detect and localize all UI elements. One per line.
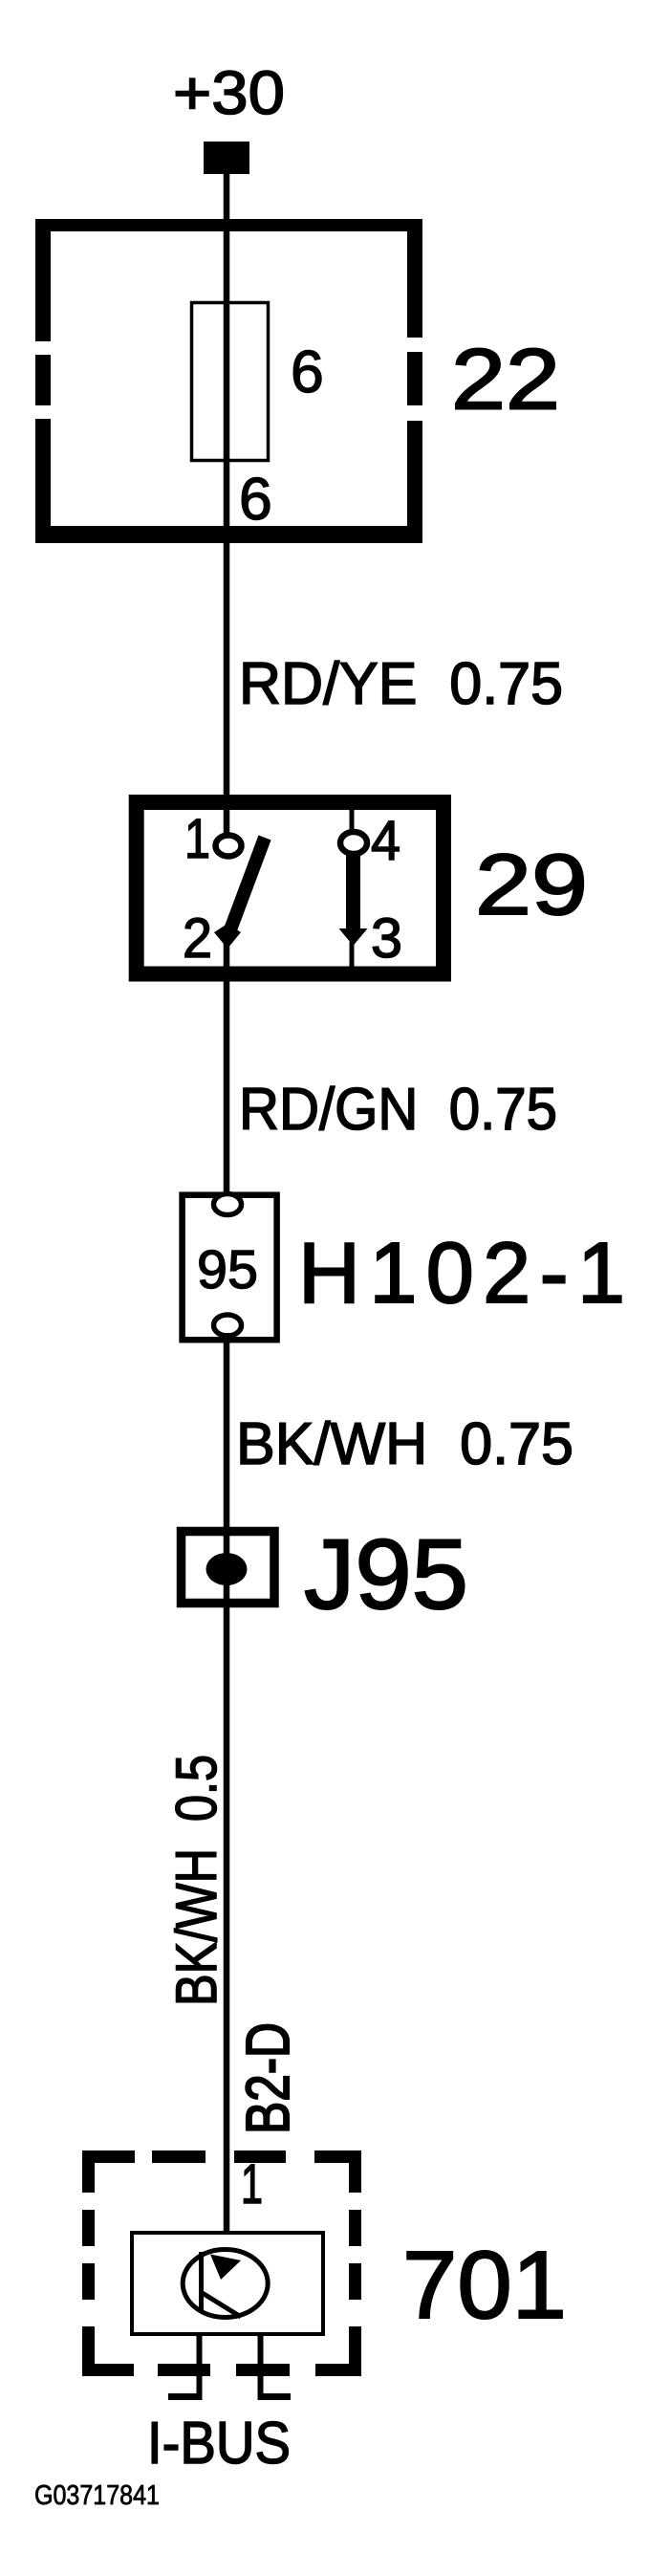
bus transceiver symbol chord line [199, 2252, 204, 2313]
I-BUS stub right end bar [258, 2393, 292, 2400]
svg-text:B2-D: B2-D [233, 2022, 302, 2134]
control unit 701 dashed enclosure bottom edge [82, 2364, 361, 2376]
control unit 701 dashed enclosure left edge [82, 2150, 95, 2375]
I-BUS stub left end bar [168, 2393, 203, 2400]
svg-text:95: 95 [197, 1239, 258, 1300]
pin 1 terminal circle [216, 836, 242, 857]
svg-text:J95: J95 [304, 1519, 468, 1630]
fuse box 22 dashed enclosure left edge [35, 219, 51, 543]
switch 29 enclosure box [137, 802, 443, 974]
svg-text:2: 2 [183, 907, 212, 970]
wire from +30 terminal through fuse box 22 to switch 29 pin 1 [224, 163, 230, 834]
bus transceiver symbol diagonal line [201, 2292, 241, 2317]
svg-text:6: 6 [239, 466, 272, 533]
connector H102-1 body [183, 1195, 277, 1341]
control unit 701 dashed enclosure top edge [82, 2150, 361, 2163]
actuator arrowhead at pin 3 [339, 928, 368, 946]
svg-text:1: 1 [184, 808, 210, 870]
svg-text:22: 22 [451, 333, 560, 428]
wire from switch 29 pin 2 to connector H102-1 [224, 942, 230, 1197]
splice J95 solid dot [206, 1553, 248, 1585]
fuse F6 element rectangle [192, 303, 269, 461]
switch arm from pin 1 to pin 2 [227, 838, 265, 940]
svg-text:+30: +30 [173, 58, 285, 127]
fuse box 22 dashed enclosure bottom edge [35, 526, 422, 543]
control unit 701 connector rectangle [132, 2233, 323, 2334]
splice J95 box [182, 1532, 275, 1604]
pin 4 terminal circle [340, 832, 367, 854]
terminal +30 solid square [204, 142, 249, 174]
svg-text:I-BUS: I-BUS [147, 2411, 291, 2477]
control unit 701 dashed enclosure right edge [349, 2150, 361, 2375]
svg-text:701: 701 [402, 2232, 567, 2339]
wire from connector H102-1 to control unit 701 [224, 1333, 230, 2235]
relay actuator bar from pin 4 to pin 3 [346, 854, 360, 930]
svg-text:6: 6 [291, 338, 324, 405]
switch arm contact diamond at pin 2 [214, 924, 241, 949]
pin 4 stub wire [350, 807, 355, 834]
fuse box 22 dashed enclosure right edge [407, 219, 422, 543]
bus transceiver symbol arrowhead [210, 2255, 241, 2281]
svg-text:RD/GN 0.75: RD/GN 0.75 [239, 1077, 557, 1143]
svg-text:4: 4 [371, 810, 400, 872]
svg-text:BK/WH 0.5: BK/WH 0.5 [164, 1755, 228, 2006]
svg-text:29: 29 [475, 838, 588, 933]
connector H102-1 upper terminal circle [214, 1194, 242, 1215]
svg-text:1: 1 [241, 2153, 263, 2216]
fuse box 22 dashed enclosure top edge [35, 219, 422, 231]
bus transceiver symbol circle [183, 2250, 268, 2318]
I-BUS stub wire right [258, 2334, 264, 2397]
svg-text:BK/WH 0.75: BK/WH 0.75 [236, 1411, 573, 1477]
svg-text:G03717841: G03717841 [34, 2480, 160, 2511]
svg-text:RD/YE 0.75: RD/YE 0.75 [239, 651, 563, 717]
pin 3 stub wire [350, 942, 355, 971]
svg-text:3: 3 [371, 907, 402, 970]
I-BUS stub wire left [197, 2334, 203, 2397]
connector H102-1 lower terminal circle [214, 1315, 242, 1336]
